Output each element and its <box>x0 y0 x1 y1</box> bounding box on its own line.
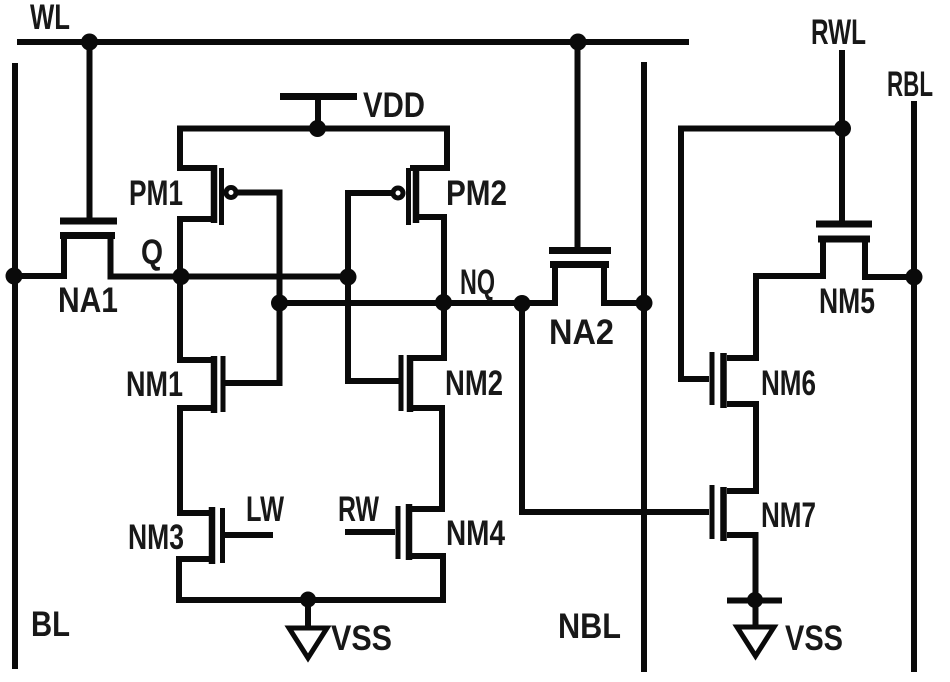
junction NQ / PM2 drain <box>435 294 452 311</box>
transistor PM2 channel bar <box>413 165 420 223</box>
junction RBL / NM5 <box>906 269 923 286</box>
wire NA2 drain to NBL <box>604 262 644 303</box>
wire NA1 gate stem <box>87 42 93 221</box>
transistor NM7 gate bar <box>710 485 715 539</box>
transistor NA2 channel bar <box>550 261 609 268</box>
wire NM3 source to VSS rail <box>179 559 215 600</box>
svg-text:NM3: NM3 <box>128 518 184 557</box>
wire VDD rail <box>180 129 447 169</box>
svg-text:VSS: VSS <box>785 619 843 658</box>
wire NA1 drain to node Q <box>111 233 349 277</box>
wire node NQ: PM2 drain to NM2 drain <box>413 217 444 358</box>
wire VSS rail <box>176 597 446 603</box>
transistor NM5 gate bar <box>816 221 872 228</box>
svg-text:NM2: NM2 <box>445 364 503 403</box>
transistor NA1 channel bar <box>60 232 115 239</box>
wire NM4 source to VSS rail <box>412 556 443 600</box>
svg-text:NM6: NM6 <box>761 364 816 403</box>
svg-text:NM1: NM1 <box>126 365 183 404</box>
svg-text:NA1: NA1 <box>58 281 118 320</box>
transistor NM2 channel bar <box>407 355 414 412</box>
ground symbol VSS left <box>289 628 327 658</box>
wire VDD stem <box>315 97 321 132</box>
wire NM6 source to NM7 drain <box>727 404 756 491</box>
svg-text:Q: Q <box>141 233 163 272</box>
wire ground stem left <box>305 600 311 631</box>
wire NM1 source to NM3 drain <box>180 408 217 513</box>
transistor NM7 channel bar <box>720 487 727 541</box>
transistor NM4 gate bar <box>396 506 401 559</box>
transistor NA1 gate bar <box>60 218 117 225</box>
svg-text:VDD: VDD <box>363 86 425 125</box>
transistor NM4 channel bar <box>406 504 413 560</box>
transistor PM1 source stub <box>177 165 217 171</box>
wire NBL line <box>641 62 647 672</box>
wire NM3 gate terminal LW <box>224 532 273 538</box>
transistor NM3 gate bar <box>220 508 225 563</box>
wire NM5 source to NM6 drain <box>727 237 823 358</box>
junction NQ / PM1 gate vertical <box>271 295 288 312</box>
svg-text:RW: RW <box>338 490 379 529</box>
wire NM7 source to ground <box>727 535 756 630</box>
svg-text:NM5: NM5 <box>819 282 875 321</box>
junction VSS rail <box>300 592 316 608</box>
wire node Q: PM1 drain to NM1 drain <box>180 219 217 360</box>
wire WL rail <box>17 39 689 45</box>
transistor NM6 gate bar <box>710 352 715 405</box>
transistor NM5 channel bar <box>818 236 870 243</box>
transistor PM2 source stub <box>410 165 450 171</box>
junction RWL / NM6 gate <box>834 120 851 137</box>
ground symbol VSS right <box>737 627 774 656</box>
transistor NM2 gate bar <box>399 355 404 411</box>
junction VSS right <box>747 592 763 608</box>
wire NM4 gate terminal RW <box>345 529 395 535</box>
transistor NM1 gate bar <box>221 356 226 412</box>
svg-text:WL: WL <box>30 0 70 37</box>
transistor PM1 body bubble <box>226 188 236 198</box>
transistor PM1 channel bar <box>211 165 218 223</box>
wire NQ tap to NM7 gate <box>522 303 709 512</box>
wire NA2 gate stem <box>575 42 581 247</box>
svg-text:NM4: NM4 <box>446 514 505 553</box>
transistor PM2 body bubble <box>393 188 403 198</box>
svg-text:PM1: PM1 <box>129 174 183 213</box>
svg-text:NQ: NQ <box>460 263 495 302</box>
svg-text:NBL: NBL <box>558 607 621 646</box>
junction NQ / NM7 gate tap <box>514 295 531 312</box>
svg-text:NA2: NA2 <box>549 313 614 352</box>
transistor NM1 channel bar <box>211 356 218 413</box>
svg-text:RBL: RBL <box>887 65 933 104</box>
svg-text:RWL: RWL <box>811 13 866 52</box>
power VDD bar <box>280 93 357 100</box>
svg-text:VSS: VSS <box>331 619 392 658</box>
junction VDD <box>309 120 326 137</box>
transistor NM3 channel bar <box>209 507 216 564</box>
ground bar right <box>727 598 782 604</box>
transistor NM6 channel bar <box>720 353 727 408</box>
wire NQ line to NA2 source <box>280 262 556 303</box>
wire RWL stem <box>839 50 845 221</box>
wire node NQ to PM1/NM1 gates <box>225 193 280 384</box>
junction node Q / PM2 gate <box>340 269 357 286</box>
junction NA2 / NBL <box>636 295 653 312</box>
transistor PM2 gate bar <box>406 168 411 225</box>
junction BL / NA1 source <box>6 268 23 285</box>
junction node Q / PM1 drain <box>173 268 190 285</box>
junction WL / NA2 gate <box>570 34 587 51</box>
transistor NA2 gate bar <box>549 247 611 254</box>
wire BL to NA1 source <box>13 233 64 276</box>
wire RWL to NM6 gate <box>681 129 842 380</box>
wire NM2 source to NM4 drain <box>412 408 442 509</box>
svg-text:BL: BL <box>31 605 70 644</box>
svg-text:NM7: NM7 <box>761 496 816 535</box>
svg-text:PM2: PM2 <box>446 174 507 213</box>
wire node Q to PM2/NM2 gates <box>348 193 400 381</box>
wire NM5 drain to RBL <box>865 237 914 277</box>
wire BL line <box>12 63 18 669</box>
svg-text:LW: LW <box>246 490 284 529</box>
junction WL / NA1 gate <box>81 34 98 51</box>
transistor PM1 gate bar <box>219 168 224 225</box>
wire RBL line <box>911 101 917 672</box>
